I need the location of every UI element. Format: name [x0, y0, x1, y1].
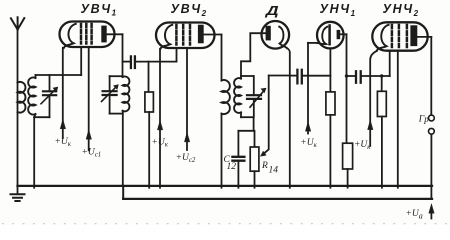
svg-text:12: 12: [227, 162, 237, 172]
svg-text:+Uс1: +Uс1: [82, 148, 102, 159]
svg-text:УНЧ2: УНЧ2: [383, 2, 420, 18]
svg-text:+Uк: +Uк: [300, 138, 317, 149]
svg-text:+Uк: +Uк: [354, 140, 371, 151]
svg-text:УВЧ1: УВЧ1: [81, 2, 118, 18]
svg-text:+Uа: +Uа: [406, 209, 423, 221]
svg-text:+Uк: +Uк: [55, 137, 72, 148]
svg-text:14: 14: [269, 166, 279, 176]
svg-text:+Uс2: +Uс2: [176, 153, 196, 164]
svg-text:R: R: [261, 161, 268, 171]
svg-text:Гр: Гр: [418, 114, 429, 124]
svg-text:Д: Д: [264, 5, 281, 19]
svg-text:+Uк: +Uк: [152, 137, 169, 148]
svg-text:УНЧ1: УНЧ1: [320, 2, 357, 18]
svg-text:УВЧ2: УВЧ2: [171, 2, 208, 18]
